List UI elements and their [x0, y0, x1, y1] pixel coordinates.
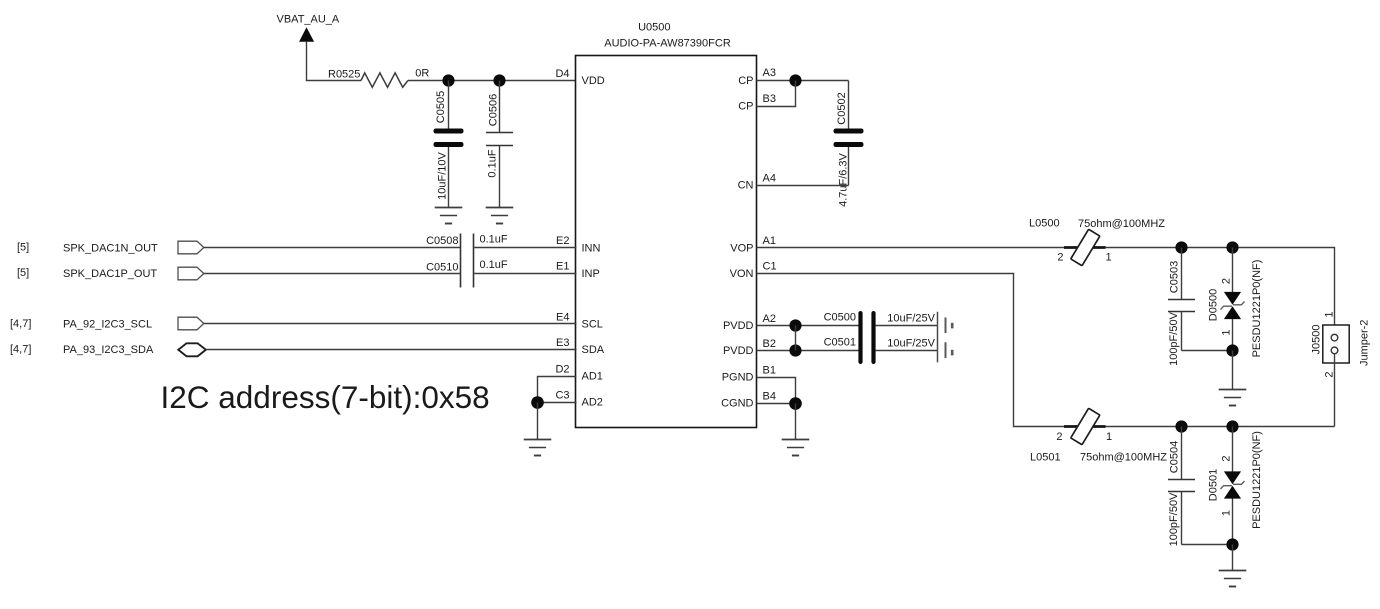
- svg-text:0R: 0R: [415, 68, 429, 80]
- svg-text:[4,7]: [4,7]: [10, 318, 31, 330]
- svg-text:PGND: PGND: [722, 372, 754, 384]
- wire SPK_DAC1P_OUT to C0510: [204, 273, 460, 275]
- svg-text:B2: B2: [763, 338, 776, 350]
- svg-text:AUDIO-PA-AW87390FCR: AUDIO-PA-AW87390FCR: [604, 38, 731, 50]
- svg-text:PA_92_I2C3_SCL: PA_92_I2C3_SCL: [63, 319, 152, 331]
- node VOP-D0500 junction: [1226, 241, 1238, 253]
- ground below D0501: [1219, 571, 1247, 587]
- svg-text:CP: CP: [738, 75, 753, 87]
- wire D0500 to ground: [1232, 351, 1234, 390]
- wire CGND to ground: [795, 404, 797, 440]
- port flag PA_93_I2C3_SDA: [178, 343, 206, 356]
- net label SPK_DAC1N_OUT: [63, 242, 158, 254]
- node VON-C0504 junction: [1175, 420, 1187, 432]
- svg-text:I2C address(7-bit):0x58: I2C address(7-bit):0x58: [161, 379, 490, 415]
- svg-text:C0504: C0504: [1169, 441, 1181, 473]
- svg-text:PVDD: PVDD: [723, 345, 754, 357]
- IC left pin numbers: [555, 68, 569, 402]
- wire R0525 to VDD: [408, 80, 577, 82]
- inductor L0501: [1030, 408, 1167, 463]
- node D0501 junction: [1226, 538, 1238, 550]
- ground below C0506: [486, 208, 514, 224]
- svg-text:INP: INP: [582, 268, 600, 280]
- svg-text:E2: E2: [556, 235, 569, 247]
- svg-text:J0500: J0500: [1311, 325, 1323, 355]
- svg-text:E4: E4: [556, 312, 569, 324]
- sheet ref [5] row1: [17, 241, 29, 253]
- svg-text:CGND: CGND: [721, 398, 753, 410]
- svg-text:100pF/50V: 100pF/50V: [1168, 311, 1180, 365]
- wire CGND stub: [757, 403, 796, 405]
- svg-text:4.7uF/6.3V: 4.7uF/6.3V: [838, 152, 850, 206]
- svg-text:2: 2: [1056, 431, 1062, 443]
- svg-text:1: 1: [1324, 311, 1336, 317]
- svg-text:0.1uF: 0.1uF: [480, 233, 508, 245]
- wire PVDD A2-B2 join: [795, 326, 797, 351]
- node junction C0506: [493, 74, 505, 86]
- net label SPK_DAC1P_OUT: [63, 268, 157, 280]
- svg-text:1: 1: [1106, 252, 1112, 264]
- svg-text:1: 1: [1106, 431, 1112, 443]
- resistor R0525: [328, 68, 429, 88]
- svg-text:75ohm@100MHZ: 75ohm@100MHZ: [1080, 452, 1167, 464]
- IC right pin numbers: [763, 67, 777, 402]
- port flag SPK_DAC1N_OUT: [178, 241, 204, 254]
- wire PGND strap: [757, 378, 796, 404]
- svg-text:B1: B1: [763, 365, 776, 377]
- node D0500 junction: [1226, 344, 1238, 356]
- svg-text:L0500: L0500: [1029, 218, 1060, 230]
- svg-text:PVDD: PVDD: [723, 320, 754, 332]
- IC left pin names: [582, 75, 605, 409]
- svg-text:C0506: C0506: [488, 94, 500, 126]
- svg-text:C0503: C0503: [1169, 261, 1181, 293]
- net label PA_92_I2C3_SCL: [63, 319, 152, 331]
- svg-text:A2: A2: [763, 313, 776, 325]
- svg-text:D2: D2: [555, 364, 569, 376]
- wire AD1 strap: [538, 377, 577, 403]
- svg-text:D4: D4: [555, 68, 569, 80]
- sheet ref [5] row2: [17, 267, 29, 279]
- wire C0502 to CN: [757, 185, 849, 187]
- capacitor C0505: [434, 81, 464, 208]
- svg-text:A1: A1: [763, 235, 776, 247]
- wire VOP rail: [757, 248, 1335, 335]
- wire C0500 tail: [876, 325, 938, 327]
- svg-text:C0500: C0500: [824, 311, 856, 323]
- svg-text:VON: VON: [730, 268, 754, 280]
- svg-text:VBAT_AU_A: VBAT_AU_A: [277, 14, 340, 26]
- power symbol VBAT_AU_A: [277, 14, 340, 81]
- diode D0501: [1208, 427, 1264, 545]
- svg-text:2: 2: [1057, 252, 1063, 264]
- port flag PA_92_I2C3_SCL: [178, 317, 204, 330]
- node CGND junction: [789, 397, 802, 410]
- wire D0501 to ground: [1232, 545, 1234, 571]
- wire C0501 tail: [876, 350, 938, 352]
- svg-text:L0501: L0501: [1030, 452, 1061, 464]
- svg-text:VOP: VOP: [730, 242, 753, 254]
- svg-text:2: 2: [1221, 455, 1233, 461]
- svg-text:SPK_DAC1P_OUT: SPK_DAC1P_OUT: [63, 268, 157, 280]
- capacitor C0500 C0501 plates: [858, 311, 875, 364]
- node CP junction: [789, 74, 801, 86]
- svg-text:A4: A4: [763, 173, 776, 185]
- net label PA_93_I2C3_SDA: [63, 344, 154, 356]
- label C0501: [824, 337, 936, 350]
- node VOP-C0503 junction: [1175, 241, 1187, 253]
- wire C0503 to D0500 node: [1182, 350, 1233, 352]
- ground below AD2: [524, 440, 552, 456]
- capacitor C0503: [1168, 248, 1195, 366]
- svg-text:C0502: C0502: [836, 92, 848, 124]
- svg-text:[5]: [5]: [17, 241, 29, 253]
- svg-text:[5]: [5]: [17, 267, 29, 279]
- wire C0510 to INP: [474, 273, 576, 275]
- svg-text:C3: C3: [555, 390, 569, 402]
- svg-text:B4: B4: [763, 391, 776, 403]
- text note I2C address: [161, 379, 490, 415]
- svg-text:2: 2: [1324, 371, 1336, 377]
- IC right pin names: [721, 75, 753, 410]
- svg-text:10uF/25V: 10uF/25V: [887, 312, 935, 324]
- wire C0504 to D0501 node: [1182, 544, 1233, 546]
- wire AD2 to ground: [537, 403, 539, 440]
- svg-text:10uF/10V: 10uF/10V: [437, 151, 449, 199]
- capacitor C0508: [426, 233, 508, 287]
- wire VBAT to R0525: [307, 79, 362, 82]
- wire PVDD A2 to C0500: [757, 325, 859, 327]
- svg-text:100pF/50V: 100pF/50V: [1168, 492, 1180, 546]
- svg-text:C0510: C0510: [426, 261, 458, 273]
- svg-text:CN: CN: [738, 180, 754, 192]
- wire SCL to E4: [204, 323, 577, 325]
- svg-text:1: 1: [1221, 510, 1233, 516]
- svg-text:CP: CP: [738, 101, 753, 113]
- svg-text:SDA: SDA: [582, 344, 605, 356]
- svg-text:D0501: D0501: [1208, 469, 1220, 501]
- svg-text:U0500: U0500: [638, 22, 670, 34]
- svg-text:SPK_DAC1N_OUT: SPK_DAC1N_OUT: [63, 242, 158, 254]
- label C0500: [824, 311, 936, 324]
- svg-text:0.1uF: 0.1uF: [480, 259, 508, 271]
- svg-text:E1: E1: [556, 261, 569, 273]
- svg-text:AD2: AD2: [582, 397, 603, 409]
- svg-text:PA_93_I2C3_SDA: PA_93_I2C3_SDA: [63, 344, 154, 356]
- wire PVDD B2 to C0501: [757, 350, 859, 352]
- svg-text:[4,7]: [4,7]: [10, 343, 31, 355]
- svg-text:D0500: D0500: [1208, 289, 1220, 321]
- svg-text:0.1uF: 0.1uF: [487, 149, 499, 177]
- svg-text:INN: INN: [582, 242, 601, 254]
- svg-text:R0525: R0525: [328, 69, 360, 81]
- node VON-D0501 junction: [1226, 420, 1238, 432]
- svg-text:75ohm@100MHZ: 75ohm@100MHZ: [1078, 218, 1165, 230]
- svg-text:C0505: C0505: [435, 91, 447, 123]
- svg-text:C0508: C0508: [426, 235, 458, 247]
- capacitor C0504: [1168, 427, 1195, 547]
- wire CP A3 to C0502: [757, 80, 849, 82]
- svg-text:C1: C1: [763, 261, 777, 273]
- sheet ref [4,7] row3: [10, 318, 31, 330]
- svg-text:Jumper-2: Jumper-2: [1359, 320, 1371, 366]
- node PVDD A2 junction: [789, 319, 801, 331]
- capacitor C0510: [426, 259, 508, 274]
- wire SPK_DAC1N_OUT to C0508: [204, 247, 460, 249]
- svg-text:E3: E3: [556, 337, 569, 349]
- connector J0500: [1311, 311, 1371, 377]
- sheet ref [4,7] row4: [10, 343, 31, 355]
- svg-text:B3: B3: [763, 93, 776, 105]
- svg-text:VDD: VDD: [582, 75, 605, 87]
- svg-text:PESDU1221P0(NF): PESDU1221P0(NF): [1251, 431, 1263, 529]
- wire SDA to E3: [206, 349, 577, 351]
- inductor L0500: [1029, 218, 1165, 266]
- svg-text:2: 2: [1221, 278, 1233, 284]
- svg-text:AD1: AD1: [582, 371, 603, 383]
- svg-text:PESDU1221P0(NF): PESDU1221P0(NF): [1251, 260, 1263, 358]
- wire C0508 to INN: [474, 247, 576, 249]
- ground below C0505: [435, 208, 463, 224]
- capacitor C0506: [486, 81, 513, 208]
- svg-text:10uF/25V: 10uF/25V: [887, 338, 935, 350]
- node AD2 junction: [531, 396, 544, 409]
- wire VON path: [757, 274, 1335, 427]
- svg-text:A3: A3: [763, 67, 776, 79]
- node junction C0505: [442, 74, 454, 86]
- svg-text:1: 1: [1221, 329, 1233, 335]
- terminal bar PVDD caps: [938, 312, 954, 363]
- node PVDD B2 junction: [789, 344, 801, 356]
- svg-text:SCL: SCL: [582, 319, 603, 331]
- ground below CGND: [782, 440, 810, 456]
- diode D0500: [1208, 248, 1264, 358]
- ground below D0500: [1219, 390, 1247, 406]
- wire CP B3 strap: [757, 81, 796, 107]
- wire AD2 stub: [538, 402, 577, 404]
- port flag SPK_DAC1P_OUT: [178, 267, 204, 280]
- svg-text:C0501: C0501: [824, 337, 856, 349]
- capacitor C0502: [834, 81, 864, 207]
- wire J0500 pin2 to rail: [1334, 354, 1336, 427]
- IC U0500 AUDIO-PA-AW87390FCR body: [576, 22, 757, 428]
